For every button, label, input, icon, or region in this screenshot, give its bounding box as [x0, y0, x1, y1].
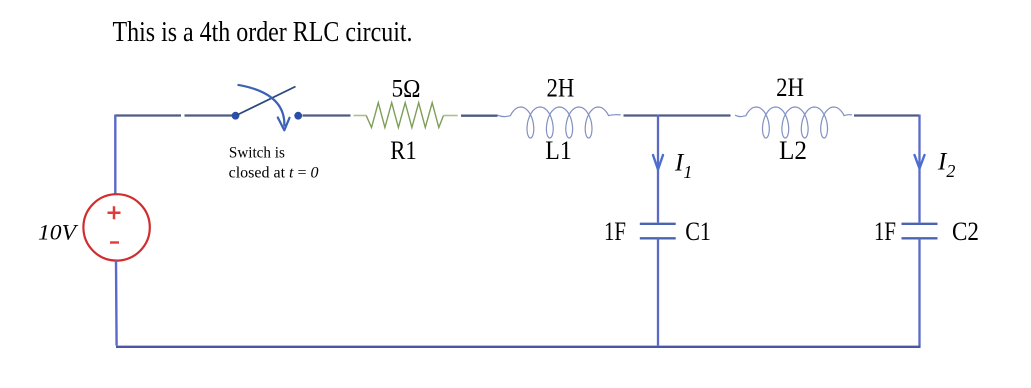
svg-text:10V: 10V	[38, 219, 79, 244]
label: + terminal	[108, 206, 121, 219]
svg-text:C1: C1	[685, 217, 711, 246]
svg-text:1F: 1F	[874, 217, 896, 246]
svg-text:I2: I2	[937, 149, 955, 182]
wire: right branch vertical lower	[918, 238, 920, 346]
svg-text:2H: 2H	[776, 73, 804, 102]
resistor R1 zigzag	[366, 103, 443, 128]
wire: right branch vertical upper	[918, 115, 920, 223]
wire: left vertical upper (corner to source)	[114, 115, 116, 195]
wire: resistor to L1	[461, 114, 498, 116]
wire: C1 branch vertical lower	[657, 238, 659, 345]
svg-text:Switch is: Switch is	[229, 144, 285, 161]
label: - terminal	[110, 241, 119, 243]
wire: left vertical lower (source to bottom)	[115, 261, 118, 346]
wire: switch to resistor	[303, 114, 351, 116]
node: switch left terminal dot	[232, 112, 240, 120]
voltage source circle	[83, 194, 149, 260]
svg-text:This is a 4th order RLC circui: This is a 4th order RLC circuit.	[113, 16, 413, 48]
wire: L2 to right corner	[854, 114, 919, 116]
node: switch right terminal dot	[294, 112, 302, 120]
resistor R1 lead right	[444, 115, 458, 117]
svg-text:L2: L2	[779, 136, 807, 165]
current arrow I2	[915, 155, 925, 169]
capacitor C2 plates	[902, 224, 938, 239]
svg-text:L1: L1	[545, 136, 572, 165]
capacitor C1 plates	[640, 224, 676, 239]
inductor L2 coil	[735, 107, 852, 138]
wire: top-left horizontal (corner to switch)	[115, 114, 232, 116]
switch blade (open arm)	[237, 87, 296, 116]
inductor L1 coil	[498, 107, 621, 138]
switch closing motion arc arrow	[238, 85, 285, 127]
svg-text:R1: R1	[390, 136, 417, 165]
svg-text:2H: 2H	[547, 74, 575, 103]
svg-text:C2: C2	[952, 217, 979, 246]
resistor R1 lead left	[354, 115, 367, 117]
svg-text:I1: I1	[674, 150, 692, 183]
svg-text:1F: 1F	[604, 217, 626, 246]
svg-text:5Ω: 5Ω	[392, 76, 421, 103]
wire: C1 branch vertical upper	[657, 115, 659, 223]
wire: L1 to L2 through node	[624, 114, 731, 116]
svg-text:closed at t = 0: closed at t = 0	[229, 165, 319, 182]
wire: bottom horizontal	[116, 346, 921, 348]
current arrow I1	[653, 155, 663, 170]
